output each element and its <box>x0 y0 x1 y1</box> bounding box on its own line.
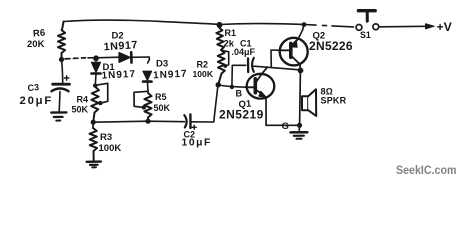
node D1 top <box>93 55 99 61</box>
node rail R3 <box>91 120 96 125</box>
ground under R3 <box>87 160 101 163</box>
node R1 top <box>217 22 223 28</box>
wire dashed R6 to D1 <box>65 58 93 59</box>
label C2 <box>182 130 212 149</box>
wire rail dash-dot to switch <box>304 25 354 27</box>
label R4 <box>72 95 89 115</box>
svg-text:R4: R4 <box>77 95 89 105</box>
svg-text:R6: R6 <box>33 28 46 40</box>
label R3 <box>99 132 122 154</box>
label C1 <box>232 39 256 58</box>
node G <box>297 123 302 128</box>
label D1 <box>101 62 136 82</box>
capacitor C2 <box>184 115 186 127</box>
speaker SPKR <box>302 96 308 110</box>
label R6 <box>27 28 46 50</box>
diode D3 <box>143 71 152 80</box>
wire C1 to Q2 collector node <box>254 66 300 70</box>
svg-text:1N917: 1N917 <box>101 69 136 82</box>
switch S1 <box>356 25 362 31</box>
svg-text:R1: R1 <box>225 28 237 38</box>
wire bottom rail <box>93 121 184 122</box>
label 8ohm SPKR <box>321 87 347 106</box>
wire C3 drop <box>62 60 63 83</box>
label D2 <box>103 31 138 54</box>
node R6 bottom <box>59 57 64 62</box>
svg-text:50K: 50K <box>72 105 89 115</box>
wire C2 to base node <box>191 87 218 123</box>
wire base Q1 <box>218 85 254 87</box>
+V arrowhead <box>426 24 435 29</box>
svg-text:2N5226: 2N5226 <box>309 39 353 53</box>
resistor R5 <box>144 93 151 121</box>
wire top rail left <box>64 20 220 24</box>
R2 wiper bracket <box>222 50 229 66</box>
R5 wiper bracket <box>134 91 148 107</box>
svg-text:R5: R5 <box>155 92 167 102</box>
R4 wiper bracket <box>95 83 108 103</box>
svg-text:50K: 50K <box>154 103 171 113</box>
resistor R2 <box>218 50 225 85</box>
resistor R4 <box>91 87 99 122</box>
resistor R1 <box>216 28 224 51</box>
svg-text:1N917: 1N917 <box>103 39 138 53</box>
resistor R6 <box>58 22 65 60</box>
svg-text:20μF: 20μF <box>20 95 54 107</box>
svg-text:.04μF: .04μF <box>232 47 256 57</box>
label R2 <box>193 60 214 80</box>
transistor Q1 <box>247 74 275 99</box>
label Q1 <box>219 99 264 122</box>
node R2 bottom <box>216 82 221 87</box>
wire D2 anode <box>96 56 119 59</box>
diode D1 <box>92 59 101 72</box>
ground G <box>298 126 300 132</box>
svg-text:SeekIC.com: SeekIC.com <box>396 163 457 177</box>
svg-text:100K: 100K <box>99 143 122 154</box>
transistor Q2 <box>280 38 308 66</box>
svg-text:D3: D3 <box>156 59 168 70</box>
svg-text:C3: C3 <box>27 82 39 93</box>
svg-text:20K: 20K <box>27 39 45 50</box>
node C1 riser <box>230 85 234 89</box>
wire top rail middle <box>220 23 305 26</box>
svg-text:SPKR: SPKR <box>321 95 347 105</box>
label D3 <box>153 59 188 82</box>
svg-text:10μF: 10μF <box>182 138 212 149</box>
resistor R3 <box>90 128 98 161</box>
label Q2 <box>309 31 353 53</box>
wire Q2 base drop <box>271 50 280 67</box>
svg-text:100K: 100K <box>193 69 214 79</box>
ground under C3 <box>51 111 66 114</box>
capacitor C1 <box>247 58 249 72</box>
wire Q2 emitter riser <box>298 25 304 38</box>
diode D2 <box>119 53 130 63</box>
wire Q1 emitter to ground <box>266 124 299 126</box>
label R1 <box>224 28 237 50</box>
node rail R5 <box>145 119 150 124</box>
svg-text:+V: +V <box>437 20 453 34</box>
capacitor C3 <box>53 83 70 86</box>
wire switch to +V <box>379 25 426 28</box>
svg-text:B: B <box>236 89 243 99</box>
svg-text:G: G <box>282 121 289 132</box>
svg-text:S1: S1 <box>360 30 371 40</box>
wire C1 riser <box>232 65 246 87</box>
svg-text:R3: R3 <box>100 132 112 143</box>
wire D2 to D3 <box>132 57 150 63</box>
svg-text:1N917: 1N917 <box>153 69 188 82</box>
label R5 <box>154 92 171 113</box>
node rail Q2 <box>302 22 307 27</box>
svg-text:2N5219: 2N5219 <box>219 108 264 122</box>
node Q2 collector <box>298 68 304 74</box>
node R4 top <box>93 83 97 87</box>
wire speaker drop <box>299 71 302 126</box>
label C3 <box>20 82 54 107</box>
svg-text:R2: R2 <box>197 60 209 70</box>
